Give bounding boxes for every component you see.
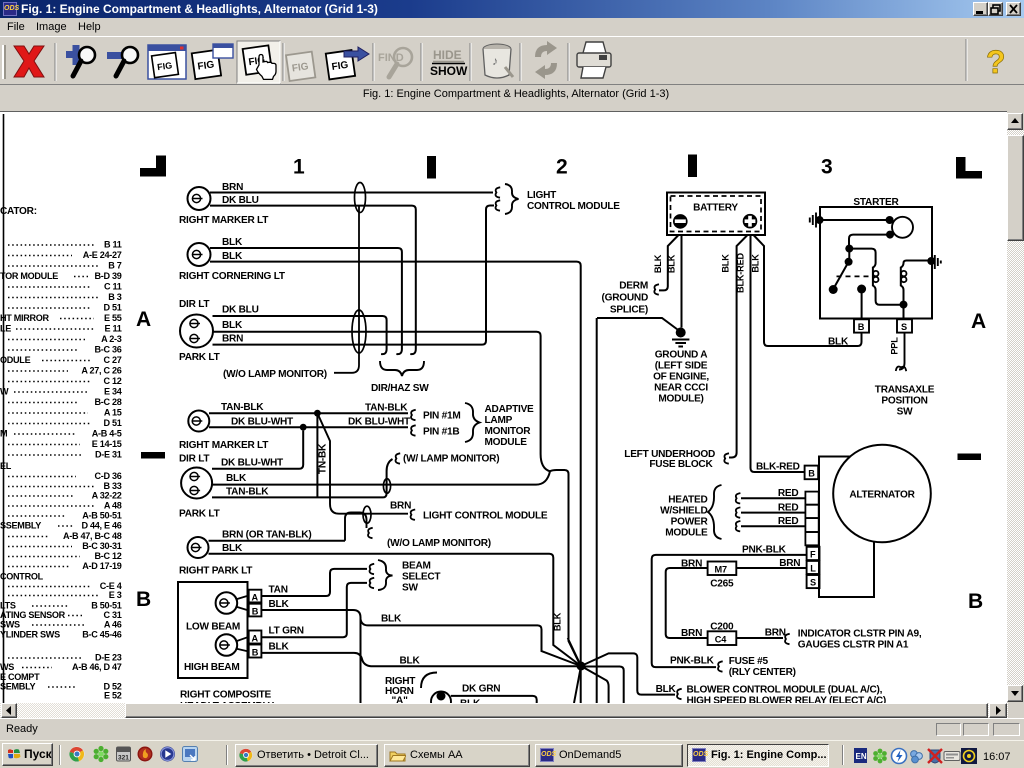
svg-text:A 15: A 15 (104, 408, 122, 418)
svg-text:BLK-RED: BLK-RED (756, 462, 800, 473)
svg-text:(W/O LAMP MONITOR): (W/O LAMP MONITOR) (223, 369, 327, 380)
svg-text:DK BLU: DK BLU (222, 195, 259, 206)
svg-text:C200: C200 (710, 622, 734, 633)
svg-text:BLK: BLK (269, 599, 290, 610)
svg-text:FIG: FIG (291, 61, 309, 74)
svg-text:SWS: SWS (0, 620, 20, 630)
svg-text:FIG: FIG (197, 59, 215, 72)
svg-text:B 33: B 33 (103, 481, 121, 491)
svg-text:ALTERNATOR: ALTERNATOR (849, 490, 915, 501)
svg-text:BRN: BRN (681, 628, 702, 639)
svg-text:1: 1 (293, 156, 305, 179)
svg-text:BLK: BLK (751, 254, 761, 273)
svg-text:DERM: DERM (619, 281, 648, 292)
svg-text:BLK: BLK (653, 254, 663, 273)
svg-text:LIGHT CONTROL MODULE: LIGHT CONTROL MODULE (423, 511, 548, 522)
svg-text:B-C 45-46: B-C 45-46 (82, 630, 121, 640)
svg-text:?: ? (986, 44, 1006, 80)
svg-text:SW: SW (897, 407, 913, 418)
svg-text:(RLY CENTER): (RLY CENTER) (729, 667, 796, 678)
svg-text:B 7: B 7 (108, 261, 121, 271)
svg-text:CATOR:: CATOR: (0, 206, 37, 217)
svg-text:B 3: B 3 (108, 292, 121, 302)
svg-text:FUSE #5: FUSE #5 (729, 656, 769, 667)
svg-text:FUSE BLOCK: FUSE BLOCK (649, 459, 713, 470)
svg-text:B-D 39: B-D 39 (94, 271, 121, 281)
svg-text:DK GRN: DK GRN (462, 684, 500, 695)
svg-text:BLK: BLK (222, 251, 243, 262)
svg-text:DK BLU-WHT: DK BLU-WHT (231, 417, 294, 428)
svg-text:C 11: C 11 (104, 282, 122, 292)
svg-text:ODULE: ODULE (0, 355, 31, 365)
svg-text:BLK: BLK (553, 612, 563, 631)
svg-text:RIGHT COMPOSITE: RIGHT COMPOSITE (180, 690, 272, 701)
svg-text:BRN: BRN (779, 558, 800, 569)
svg-text:GAUGES CLSTR PIN A1: GAUGES CLSTR PIN A1 (798, 640, 909, 651)
svg-text:PPL: PPL (890, 337, 900, 355)
svg-text:D 51: D 51 (103, 303, 121, 313)
svg-text:A: A (252, 593, 259, 603)
svg-text:BLK: BLK (656, 684, 677, 695)
svg-text:B-C 28: B-C 28 (94, 397, 121, 407)
svg-text:MONITOR: MONITOR (485, 426, 532, 437)
svg-text:SW: SW (402, 583, 418, 594)
svg-text:C 12: C 12 (103, 376, 121, 386)
svg-text:A-B 50-51: A-B 50-51 (82, 511, 121, 521)
svg-text:RIGHT PARK LT: RIGHT PARK LT (179, 566, 253, 577)
svg-text:TAN-BLK: TAN-BLK (221, 402, 264, 413)
svg-text:RIGHT MARKER LT: RIGHT MARKER LT (179, 215, 269, 226)
svg-text:BLOWER CONTROL MODULE (DUAL A/: BLOWER CONTROL MODULE (DUAL A/C), (687, 685, 883, 696)
svg-text:B: B (858, 322, 865, 332)
svg-text:TAN-BLK: TAN-BLK (226, 487, 269, 498)
svg-text:S: S (810, 578, 816, 588)
svg-text:(W/ LAMP MONITOR): (W/ LAMP MONITOR) (403, 454, 499, 465)
svg-text:C4: C4 (715, 635, 727, 645)
svg-text:B-C 36: B-C 36 (94, 345, 121, 355)
svg-text:LTS: LTS (0, 601, 16, 611)
svg-text:♪: ♪ (492, 54, 498, 68)
svg-text:A 2-3: A 2-3 (101, 334, 122, 344)
svg-text:SEMBLY: SEMBLY (0, 682, 35, 692)
svg-text:(W/O LAMP MONITOR): (W/O LAMP MONITOR) (387, 538, 491, 549)
svg-text:BLK: BLK (667, 254, 677, 273)
svg-text:MODULE): MODULE) (658, 394, 703, 405)
svg-text:A-E 24-27: A-E 24-27 (83, 250, 122, 260)
svg-text:M: M (0, 429, 7, 439)
svg-text:E 52: E 52 (104, 691, 122, 701)
svg-text:OF ENGINE,: OF ENGINE, (653, 372, 709, 383)
svg-text:2: 2 (556, 156, 568, 179)
svg-text:LT GRN: LT GRN (269, 626, 304, 637)
svg-text:BLK: BLK (828, 337, 849, 348)
svg-text:BLK: BLK (381, 614, 402, 625)
svg-text:DK BLU: DK BLU (222, 305, 259, 316)
svg-text:DIR/HAZ SW: DIR/HAZ SW (371, 383, 429, 394)
svg-text:B: B (136, 588, 151, 611)
svg-text:TAN-BLK: TAN-BLK (365, 403, 408, 414)
svg-text:A 27, C 26: A 27, C 26 (81, 366, 121, 376)
svg-text:DIR LT: DIR LT (179, 299, 210, 310)
svg-text:E 3: E 3 (109, 590, 122, 600)
svg-text:B 11: B 11 (104, 240, 122, 250)
svg-text:A-B 4-5: A-B 4-5 (92, 429, 122, 439)
svg-text:SELECT: SELECT (402, 572, 441, 583)
svg-text:DIR LT: DIR LT (179, 454, 210, 465)
svg-text:SPLICE): SPLICE) (610, 305, 648, 316)
svg-text:TOR MODULE: TOR MODULE (0, 271, 58, 281)
svg-text:HT MIRROR: HT MIRROR (0, 313, 50, 323)
svg-text:NEAR CCCI: NEAR CCCI (654, 383, 708, 394)
svg-text:A: A (971, 310, 986, 333)
svg-text:POWER: POWER (671, 517, 709, 528)
svg-text:BRN (OR TAN-BLK): BRN (OR TAN-BLK) (222, 530, 311, 541)
svg-text:BLK: BLK (721, 254, 731, 273)
svg-text:PARK LT: PARK LT (179, 509, 221, 520)
svg-text:A-B 46, D 47: A-B 46, D 47 (72, 662, 122, 672)
svg-text:(GROUND: (GROUND (602, 293, 648, 304)
svg-text:C265: C265 (710, 579, 734, 590)
svg-text:D-E 23: D-E 23 (95, 653, 122, 663)
svg-text:PIN #1B: PIN #1B (423, 427, 459, 438)
svg-text:E 14-15: E 14-15 (92, 439, 122, 449)
svg-text:RED: RED (778, 516, 799, 527)
svg-text:INDICATOR CLSTR PIN A9,: INDICATOR CLSTR PIN A9, (798, 629, 922, 640)
svg-text:HEATED: HEATED (668, 495, 707, 506)
svg-text:D 44, E 46: D 44, E 46 (82, 521, 122, 531)
svg-text:D 51: D 51 (103, 418, 121, 428)
svg-text:BLK: BLK (400, 656, 421, 667)
svg-text:RIGHT MARKER LT: RIGHT MARKER LT (179, 440, 269, 451)
svg-text:C-D 36: C-D 36 (94, 471, 121, 481)
svg-text:GROUND A: GROUND A (655, 350, 709, 361)
svg-text:EL: EL (0, 461, 12, 471)
svg-text:RIGHT CORNERING LT: RIGHT CORNERING LT (179, 271, 286, 282)
svg-text:321: 321 (118, 755, 129, 762)
svg-text:FIG: FIG (331, 60, 349, 73)
svg-text:EN: EN (856, 752, 867, 761)
svg-text:TN-BK: TN-BK (318, 443, 329, 474)
svg-text:BRN: BRN (222, 182, 243, 193)
svg-text:BLK: BLK (226, 473, 247, 484)
svg-text:W/SHIELD: W/SHIELD (660, 506, 707, 517)
svg-text:FIG: FIG (157, 60, 173, 72)
svg-text:F: F (810, 550, 816, 560)
svg-text:B: B (252, 607, 259, 617)
svg-text:TRANSAXLE: TRANSAXLE (875, 385, 935, 396)
svg-text:ATING SENSOR: ATING SENSOR (0, 610, 66, 620)
svg-text:BRN: BRN (390, 501, 411, 512)
svg-text:L: L (810, 564, 816, 574)
svg-text:E 55: E 55 (104, 313, 122, 323)
svg-text:M7: M7 (715, 565, 727, 575)
svg-text:CONTROL: CONTROL (0, 572, 44, 582)
svg-text:E COMPT: E COMPT (0, 672, 40, 682)
svg-text:B-C 12: B-C 12 (94, 551, 121, 561)
svg-text:LIGHT: LIGHT (527, 190, 557, 201)
svg-text:BRN: BRN (765, 628, 786, 639)
svg-text:HIGH BEAM: HIGH BEAM (184, 662, 240, 673)
svg-text:ADAPTIVE: ADAPTIVE (485, 404, 535, 415)
svg-text:BRN: BRN (222, 334, 243, 345)
svg-text:16:07: 16:07 (983, 751, 1011, 763)
svg-text:B-C 30-31: B-C 30-31 (82, 541, 121, 551)
svg-text:A: A (136, 308, 151, 331)
svg-text:HIDE: HIDE (433, 48, 462, 62)
svg-text:BLK: BLK (222, 237, 243, 248)
svg-text:BATTERY: BATTERY (693, 203, 738, 214)
svg-text:LAMP: LAMP (485, 415, 513, 426)
svg-text:"A": "A" (392, 696, 409, 704)
svg-text:BEAM: BEAM (402, 561, 431, 572)
svg-text:DK BLU-WHT: DK BLU-WHT (348, 417, 411, 428)
svg-text:W: W (0, 387, 9, 397)
svg-text:B: B (808, 469, 815, 479)
svg-text:WS: WS (0, 662, 14, 672)
svg-text:B: B (252, 647, 259, 657)
svg-text:A: A (252, 633, 259, 643)
svg-text:PARK LT: PARK LT (179, 352, 221, 363)
svg-text:CONTROL MODULE: CONTROL MODULE (527, 201, 620, 212)
svg-text:TAN: TAN (269, 585, 288, 596)
svg-text:SHOW: SHOW (430, 64, 468, 78)
svg-text:E 34: E 34 (104, 387, 123, 397)
svg-text:A 46: A 46 (104, 620, 122, 630)
svg-text:BRN: BRN (681, 559, 702, 570)
svg-text:C 31: C 31 (103, 610, 121, 620)
svg-text:A-B 47, B-C 48: A-B 47, B-C 48 (63, 531, 122, 541)
svg-text:S: S (901, 322, 907, 332)
svg-text:E 11: E 11 (104, 324, 121, 334)
svg-text:MODULE: MODULE (665, 528, 708, 539)
svg-text:DK BLU-WHT: DK BLU-WHT (221, 458, 284, 469)
svg-text:PNK-BLK: PNK-BLK (742, 545, 787, 556)
svg-text:PNK-BLK: PNK-BLK (670, 656, 715, 667)
svg-text:BLK-RED: BLK-RED (736, 252, 746, 293)
svg-text:A 48: A 48 (104, 501, 122, 511)
svg-text:BLK: BLK (222, 543, 243, 554)
svg-text:PIN #1M: PIN #1M (423, 411, 461, 422)
svg-text:RED: RED (778, 502, 799, 513)
svg-text:HIGH SPEED BLOWER RELAY (ELECT: HIGH SPEED BLOWER RELAY (ELECT A/C) (687, 696, 887, 704)
svg-text:FIND: FIND (378, 52, 404, 64)
svg-text:D-E 31: D-E 31 (95, 450, 122, 460)
svg-text:LOW BEAM: LOW BEAM (186, 622, 240, 633)
svg-text:C 27: C 27 (103, 355, 121, 365)
svg-text:MODULE: MODULE (485, 437, 528, 448)
svg-text:A 32-22: A 32-22 (92, 491, 122, 501)
svg-text:B 50-51: B 50-51 (91, 601, 121, 611)
svg-text:SSEMBLY: SSEMBLY (0, 521, 41, 531)
svg-text:YLINDER SWS: YLINDER SWS (0, 630, 60, 640)
svg-text:(LEFT SIDE: (LEFT SIDE (655, 361, 708, 372)
svg-text:3: 3 (821, 156, 833, 179)
svg-text:A-D 17-19: A-D 17-19 (82, 561, 121, 571)
svg-text:POSITION: POSITION (881, 396, 927, 407)
svg-text:B: B (968, 590, 983, 613)
svg-text:BLK: BLK (269, 642, 290, 653)
svg-text:RED: RED (778, 488, 799, 499)
svg-text:BLK: BLK (222, 320, 243, 331)
svg-text:LE: LE (0, 324, 11, 334)
